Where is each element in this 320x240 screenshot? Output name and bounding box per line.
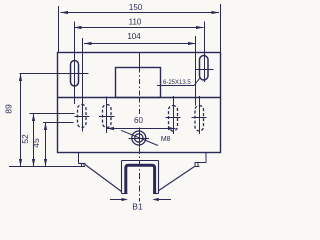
svg-text:150: 150 [129,3,143,12]
svg-text:104: 104 [127,32,141,41]
svg-text:45: 45 [31,138,41,148]
svg-text:110: 110 [129,18,142,27]
svg-text:52: 52 [20,134,30,144]
svg-text:M8: M8 [161,136,171,143]
svg-text:B1: B1 [132,202,143,212]
svg-text:60: 60 [134,116,143,125]
svg-text:89: 89 [4,104,14,114]
